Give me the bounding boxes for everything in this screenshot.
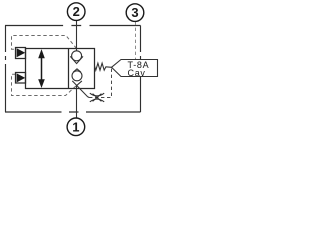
svg-text:2: 2 (73, 4, 80, 19)
svg-text:3: 3 (131, 5, 138, 20)
svg-text:1: 1 (72, 119, 79, 134)
svg-text:Cav: Cav (128, 68, 146, 78)
